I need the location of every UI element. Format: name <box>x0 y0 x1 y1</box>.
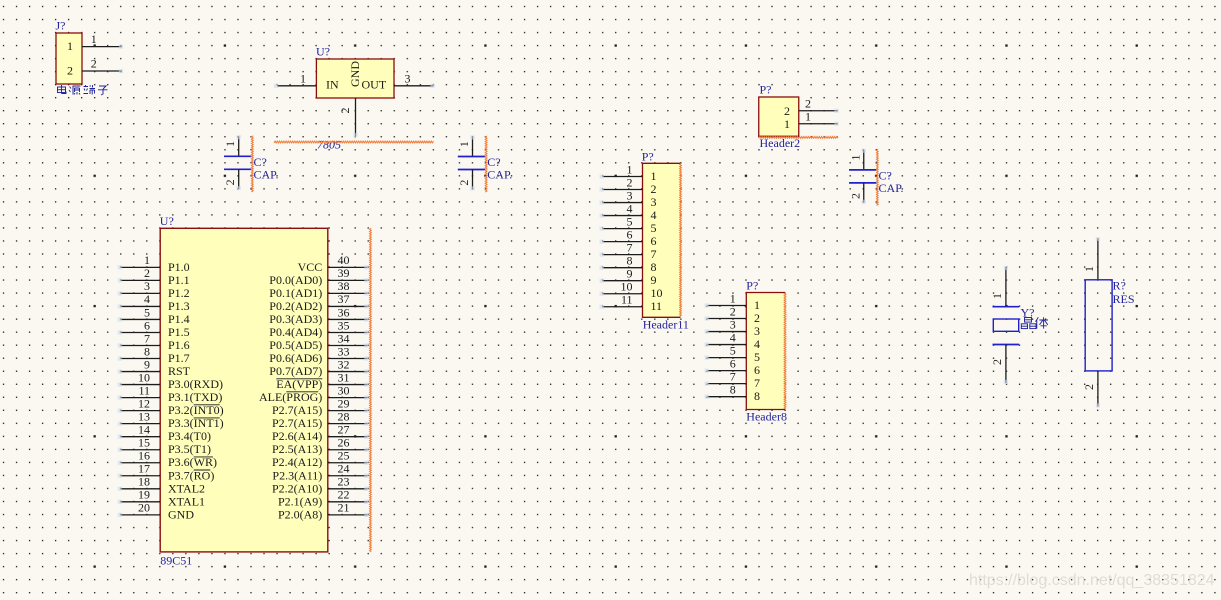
svg-text:P0.2(AD2): P0.2(AD2) <box>269 299 322 313</box>
IC pin 16 (P3.6(WR)) <box>118 449 217 470</box>
Header11 pin 6 <box>600 227 657 248</box>
IC pin 39 (P0.0(AD0)) <box>269 266 368 287</box>
IC pin 28 (P2.7(A15)) <box>272 409 368 430</box>
svg-text:12: 12 <box>138 396 150 410</box>
IC pin 3 (P1.2) <box>118 279 190 300</box>
svg-text:27: 27 <box>338 422 350 436</box>
svg-text:1: 1 <box>144 253 150 267</box>
crystal label 晶体 <box>1021 317 1048 328</box>
svg-text:1: 1 <box>805 110 811 124</box>
capacitor C? lead 1 <box>848 149 866 170</box>
svg-text:XTAL2: XTAL2 <box>168 481 205 495</box>
svg-text:Header2: Header2 <box>760 136 801 150</box>
capacitor C? designator + value <box>487 155 512 182</box>
IC pin 22 (P2.1(A9)) <box>278 488 368 509</box>
Header2 no-ERC marker <box>759 137 838 139</box>
svg-text:3: 3 <box>754 324 760 338</box>
svg-text:11: 11 <box>651 299 663 313</box>
svg-text:4: 4 <box>754 337 760 351</box>
IC pin 1 (P1.0) <box>118 253 190 274</box>
Header11 pin 5 <box>600 214 657 235</box>
IC pin 38 (P0.1(AD1)) <box>269 279 368 300</box>
svg-text:4: 4 <box>651 208 657 222</box>
crystal Y? lead 2 <box>990 345 1008 385</box>
svg-text:15: 15 <box>138 436 150 450</box>
svg-text:1: 1 <box>784 117 790 131</box>
svg-text:P?: P? <box>760 83 772 97</box>
Header8 pin 8 <box>705 382 760 403</box>
capacitor C? plates <box>849 170 876 183</box>
svg-text:GND: GND <box>348 61 362 87</box>
svg-text:RST: RST <box>168 364 191 378</box>
svg-text:21: 21 <box>338 501 350 515</box>
connector P? Header2 body <box>759 83 799 137</box>
Header11 pin 4 <box>600 201 657 222</box>
svg-text:6: 6 <box>627 227 633 241</box>
svg-text:1: 1 <box>990 293 1004 299</box>
Header11 pin 7 <box>600 240 657 261</box>
Header8 pin 3 <box>705 317 760 338</box>
svg-text:2: 2 <box>651 182 657 196</box>
svg-text:8: 8 <box>754 389 760 403</box>
IC pin 33 (P0.6(AD6)) <box>269 344 368 365</box>
svg-text:38: 38 <box>338 279 350 293</box>
capacitor C? lead 2 <box>848 183 866 204</box>
svg-text:P1.2: P1.2 <box>168 286 190 300</box>
svg-text:Header11: Header11 <box>643 318 689 332</box>
svg-text:40: 40 <box>338 253 350 267</box>
svg-text:24: 24 <box>338 462 350 476</box>
svg-text:2: 2 <box>627 175 633 189</box>
IC pin 18 (XTAL2) <box>118 475 205 496</box>
IC pin 8 (P1.7) <box>118 344 190 365</box>
svg-text:10: 10 <box>138 370 150 384</box>
svg-text:Header8: Header8 <box>746 410 787 424</box>
svg-text:P1.6: P1.6 <box>168 338 190 352</box>
capacitor C? lead 2 <box>457 170 475 191</box>
svg-text:4: 4 <box>144 292 150 306</box>
IC pin 25 (P2.4(A12)) <box>272 449 368 470</box>
svg-text:25: 25 <box>338 449 350 463</box>
svg-text:9: 9 <box>144 357 150 371</box>
IC pin 11 (P3.1(TXD)) <box>118 383 223 404</box>
IC pin 24 (P2.3(A11)) <box>272 462 368 483</box>
7805 pin 1 wire <box>274 72 317 88</box>
svg-text:P0.4(AD4): P0.4(AD4) <box>269 325 322 339</box>
svg-text:5: 5 <box>754 350 760 364</box>
svg-text:7: 7 <box>144 331 150 345</box>
svg-text:7: 7 <box>627 240 633 254</box>
svg-text:3: 3 <box>730 317 736 331</box>
svg-text:30: 30 <box>338 383 350 397</box>
svg-text:1: 1 <box>300 72 306 86</box>
svg-text:8: 8 <box>651 260 657 274</box>
capacitor C? designator + value <box>879 169 904 196</box>
svg-text:8: 8 <box>144 344 150 358</box>
capacitor C? no-ERC marker <box>877 149 879 205</box>
svg-text:CAP.: CAP. <box>487 168 512 182</box>
svg-text:2: 2 <box>805 97 811 111</box>
svg-text:17: 17 <box>138 462 150 476</box>
Header2 comment text <box>760 136 801 150</box>
IC pin 23 (P2.2(A10)) <box>272 475 368 496</box>
Header8 pin 2 <box>705 304 760 325</box>
Header8 pin 4 <box>705 330 760 351</box>
svg-text:P3.1(TXD): P3.1(TXD) <box>168 390 222 404</box>
svg-text:16: 16 <box>138 449 150 463</box>
IC pin 21 (P2.0(A8)) <box>278 501 368 522</box>
Header2 pin 1 wire <box>799 110 839 126</box>
IC pin 37 (P0.2(AD2)) <box>269 292 368 313</box>
Header8 pin 1 <box>705 291 760 312</box>
svg-text:P2.5(A13): P2.5(A13) <box>272 442 322 456</box>
Header2 pin 2 wire <box>799 97 839 113</box>
svg-text:RES: RES <box>1113 292 1135 306</box>
capacitor C? lead 2 <box>223 169 241 190</box>
svg-text:U?: U? <box>160 214 174 228</box>
Header8 pin 7 <box>705 369 760 390</box>
IC right no-ERC marker (vertical orange zigzag) <box>370 228 372 551</box>
svg-text:P1.4: P1.4 <box>168 312 190 326</box>
Header11 pin 9 <box>600 267 657 288</box>
svg-text:23: 23 <box>338 475 350 489</box>
crystal Y? lead 1 <box>990 266 1008 307</box>
Header8 pin 6 <box>705 356 760 377</box>
svg-text:29: 29 <box>338 396 350 410</box>
svg-text:P0.1(AD1): P0.1(AD1) <box>269 286 322 300</box>
svg-text:2: 2 <box>91 56 97 70</box>
Header8 right edge no-ERC zigzag <box>784 293 786 410</box>
svg-text:P0.7(AD7): P0.7(AD7) <box>269 364 322 378</box>
svg-text:J?: J? <box>56 19 66 33</box>
capacitor C? plates <box>224 156 251 169</box>
IC pin 32 (P0.7(AD7)) <box>269 357 368 378</box>
IC pin 13 (P3.3(INT1)) <box>118 409 224 430</box>
svg-text:9: 9 <box>627 267 633 281</box>
svg-text:14: 14 <box>138 422 150 436</box>
IC pin 20 (GND) <box>118 501 195 522</box>
svg-text:37: 37 <box>338 292 350 306</box>
label 电源端子 (power terminal) <box>58 85 108 95</box>
Header11 pin 11 <box>600 293 662 314</box>
capacitor C? lead 1 <box>457 135 475 156</box>
svg-text:CAP.: CAP. <box>254 167 279 181</box>
svg-text:4: 4 <box>730 330 736 344</box>
svg-text:89C51: 89C51 <box>160 554 192 568</box>
svg-text:P2.7(A15): P2.7(A15) <box>272 403 322 417</box>
svg-text:5: 5 <box>144 305 150 319</box>
svg-text:26: 26 <box>338 436 350 450</box>
svg-text:1: 1 <box>730 291 736 305</box>
IC pin 7 (P1.6) <box>118 331 190 352</box>
voltage regulator U? 7805 <box>316 45 394 99</box>
svg-text:1: 1 <box>457 141 471 147</box>
svg-text:P1.7: P1.7 <box>168 351 190 365</box>
IC pin 4 (P1.3) <box>118 292 190 313</box>
svg-text:3: 3 <box>405 72 411 86</box>
Header11 pin 1 <box>600 162 657 183</box>
svg-text:3: 3 <box>651 195 657 209</box>
IC pin 10 (P3.0(RXD)) <box>118 370 223 391</box>
svg-text:https://blog.csdn.net/qq_38351: https://blog.csdn.net/qq_38351824 <box>969 572 1215 589</box>
crystal Y? body <box>993 319 1018 331</box>
svg-text:8: 8 <box>627 253 633 267</box>
svg-text:P0.3(AD3): P0.3(AD3) <box>269 312 322 326</box>
svg-text:P1.5: P1.5 <box>168 325 190 339</box>
svg-text:P2.3(A11): P2.3(A11) <box>272 468 322 482</box>
svg-text:P2.0(A8): P2.0(A8) <box>278 507 322 521</box>
svg-text:34: 34 <box>338 331 350 345</box>
svg-text:7: 7 <box>754 376 760 390</box>
IC pin 27 (P2.6(A14)) <box>272 422 368 443</box>
svg-text:2: 2 <box>67 64 73 78</box>
svg-text:1: 1 <box>1082 266 1096 272</box>
no-ERC marker (horizontal orange zigzag) <box>274 141 434 143</box>
IC pin 35 (P0.4(AD4)) <box>269 318 368 339</box>
svg-text:P2.4(A12): P2.4(A12) <box>272 455 322 469</box>
Header11 pin 8 <box>600 253 657 274</box>
svg-text:6: 6 <box>754 363 760 377</box>
capacitor C? lead 1 <box>223 135 241 156</box>
svg-text:1: 1 <box>627 162 633 176</box>
svg-text:2: 2 <box>848 193 862 199</box>
IC 89C51 designator text <box>160 554 192 568</box>
svg-text:10: 10 <box>621 280 633 294</box>
svg-text:2: 2 <box>1082 384 1096 390</box>
svg-text:2: 2 <box>730 304 736 318</box>
IC pin 30 (ALE(PROG)) <box>259 383 368 404</box>
svg-text:P?: P? <box>746 279 758 293</box>
7805 comment text <box>317 138 341 152</box>
svg-text:2: 2 <box>144 266 150 280</box>
svg-text:33: 33 <box>338 344 350 358</box>
svg-text:8: 8 <box>730 382 736 396</box>
svg-text:P3.5(T1): P3.5(T1) <box>168 442 211 456</box>
Header8 comment text <box>746 410 787 424</box>
svg-text:P2.2(A10): P2.2(A10) <box>272 481 322 495</box>
svg-text:IN: IN <box>326 78 339 92</box>
IC pin 26 (P2.5(A13)) <box>272 436 368 457</box>
IC pin 36 (P0.3(AD3)) <box>269 305 368 326</box>
svg-text:9: 9 <box>651 273 657 287</box>
svg-text:39: 39 <box>338 266 350 280</box>
wire J? pin2 <box>82 56 123 73</box>
crystal Y? bottom plate <box>993 344 1020 346</box>
svg-text:7: 7 <box>651 247 657 261</box>
svg-text:2: 2 <box>457 180 471 186</box>
svg-text:2: 2 <box>990 359 1004 365</box>
svg-text:22: 22 <box>338 488 350 502</box>
svg-text:2: 2 <box>784 104 790 118</box>
resistor R? designator + value <box>1113 279 1135 307</box>
svg-text:1: 1 <box>848 155 862 161</box>
IC pin 9 (RST) <box>118 357 191 378</box>
svg-text:P1.1: P1.1 <box>168 273 190 287</box>
svg-text:P2.1(A9): P2.1(A9) <box>278 494 322 508</box>
svg-text:P0.5(AD5): P0.5(AD5) <box>269 338 322 352</box>
IC U? 89C51 body <box>160 214 328 552</box>
svg-text:7: 7 <box>730 369 736 383</box>
svg-text:6: 6 <box>730 356 736 370</box>
svg-text:19: 19 <box>138 488 150 502</box>
resistor R? body <box>1085 280 1112 371</box>
svg-text:11: 11 <box>138 383 150 397</box>
svg-text:3: 3 <box>144 279 150 293</box>
svg-text:1: 1 <box>91 32 97 46</box>
svg-text:7805: 7805 <box>317 138 341 152</box>
svg-text:32: 32 <box>338 357 350 371</box>
IC pin 6 (P1.5) <box>118 318 190 339</box>
capacitor C? no-ERC marker <box>485 136 487 192</box>
svg-text:2: 2 <box>338 108 352 114</box>
svg-text:1: 1 <box>223 141 237 147</box>
svg-text:28: 28 <box>338 409 350 423</box>
Header11 pin 3 <box>600 188 657 209</box>
connector J? (power terminal) <box>56 19 83 85</box>
wire J? pin1 <box>82 32 123 49</box>
IC pin 19 (XTAL1) <box>118 488 205 509</box>
svg-text:P0.0(AD0): P0.0(AD0) <box>269 273 322 287</box>
resistor R? lead 2 <box>1082 371 1100 408</box>
IC pin 31 (EA(VPP)) <box>276 370 368 391</box>
IC pin 2 (P1.1) <box>118 266 190 287</box>
svg-text:4: 4 <box>627 201 633 215</box>
IC pin 5 (P1.4) <box>118 305 190 326</box>
7805 pin 2 wire <box>338 98 358 137</box>
watermark <box>969 572 1215 589</box>
connector P? Header11 body <box>642 150 681 318</box>
svg-text:10: 10 <box>651 286 663 300</box>
svg-text:5: 5 <box>730 343 736 357</box>
svg-text:GND: GND <box>168 507 194 521</box>
svg-text:1: 1 <box>754 298 760 312</box>
svg-text:1: 1 <box>651 169 657 183</box>
svg-text:6: 6 <box>144 318 150 332</box>
svg-text:1: 1 <box>67 39 73 53</box>
svg-text:2: 2 <box>754 311 760 325</box>
capacitor C? plates <box>458 157 485 170</box>
crystal Y? top plate <box>993 306 1020 308</box>
svg-text:P2.7(A15): P2.7(A15) <box>272 416 322 430</box>
IC pin 15 (P3.5(T1)) <box>118 436 211 457</box>
svg-text:P?: P? <box>642 150 654 164</box>
Header11 pin 2 <box>600 175 657 196</box>
svg-text:P0.6(AD6): P0.6(AD6) <box>269 351 322 365</box>
IC pin 12 (P3.2(INT0)) <box>118 396 224 417</box>
svg-text:R?: R? <box>1113 279 1126 293</box>
svg-text:2: 2 <box>223 179 237 185</box>
svg-text:3: 3 <box>627 188 633 202</box>
svg-text:VCC: VCC <box>298 260 323 274</box>
Header11 right edge no-ERC zigzag <box>680 163 682 316</box>
svg-text:18: 18 <box>138 475 150 489</box>
svg-text:XTAL1: XTAL1 <box>168 494 205 508</box>
svg-text:P3.4(T0): P3.4(T0) <box>168 429 211 443</box>
svg-text:P2.6(A14): P2.6(A14) <box>272 429 322 443</box>
svg-text:5: 5 <box>651 221 657 235</box>
svg-text:13: 13 <box>138 409 150 423</box>
IC pin 34 (P0.5(AD5)) <box>269 331 368 352</box>
Header11 comment text <box>643 318 689 332</box>
capacitor C? no-ERC marker <box>251 136 253 192</box>
Header11 pin 10 <box>600 280 663 301</box>
svg-text:11: 11 <box>621 293 633 307</box>
IC pin 17 (P3.7(RO)) <box>118 462 215 483</box>
connector P? Header8 body <box>746 279 785 410</box>
svg-text:OUT: OUT <box>362 78 387 92</box>
IC pin 40 (VCC) <box>298 253 369 274</box>
svg-text:P1.3: P1.3 <box>168 299 190 313</box>
7805 pin 3 wire <box>394 72 435 88</box>
capacitor C? designator + value <box>254 155 279 182</box>
svg-text:5: 5 <box>627 214 633 228</box>
svg-text:U?: U? <box>316 45 330 59</box>
IC pin 29 (P2.7(A15)) <box>272 396 368 417</box>
svg-text:P3.0(RXD): P3.0(RXD) <box>168 377 223 391</box>
svg-text:35: 35 <box>338 318 350 332</box>
IC pin 14 (P3.4(T0)) <box>118 422 211 443</box>
resistor R? lead 1 <box>1082 237 1100 280</box>
svg-text:31: 31 <box>338 370 350 384</box>
svg-text:6: 6 <box>651 234 657 248</box>
svg-text:CAP.: CAP. <box>879 181 904 195</box>
Header8 pin 5 <box>705 343 760 364</box>
svg-text:P1.0: P1.0 <box>168 260 190 274</box>
svg-text:20: 20 <box>138 501 150 515</box>
svg-text:36: 36 <box>338 305 350 319</box>
crystal Y? designator <box>1021 306 1035 320</box>
